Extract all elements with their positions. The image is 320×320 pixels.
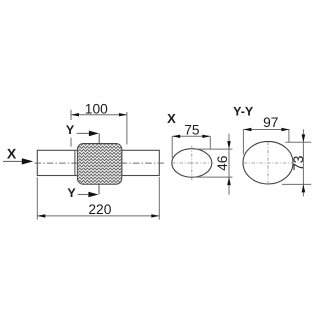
side view: centerline	[35, 162, 167, 164]
dimension 100 line	[71, 114, 127, 116]
side view: right pipe-to-flex junction line	[121, 151, 123, 176]
section line Y top	[98, 133, 100, 144]
svg-text:46: 46	[215, 155, 230, 171]
dimension 220 right extension line	[158, 177, 160, 220]
svg-text:X: X	[7, 145, 17, 161]
dimension 220 left extension line	[36, 177, 38, 219]
dimension 46 bottom extension line	[191, 176, 233, 178]
dimension 100 left extension line	[70, 110, 72, 120]
dimension 220 line	[37, 215, 159, 217]
dimension 100 right extension line	[126, 112, 128, 144]
side view: left pipe-to-flex junction line	[74, 151, 76, 176]
dimension 97 line	[243, 129, 289, 131]
section line Y bottom	[98, 184, 100, 195]
dimension 75 right extension line	[209, 136, 211, 149]
svg-text:97: 97	[263, 115, 278, 130]
arrow Y bottom	[78, 194, 90, 196]
svg-text:75: 75	[184, 122, 200, 137]
X view: vertical centerline	[191, 146, 193, 181]
Y-Y view: vertical centerline	[267, 142, 269, 184]
side view: flex braid section	[77, 144, 121, 185]
Y-Y view: horizontal centerline	[244, 162, 292, 164]
arrow Y top	[77, 132, 90, 134]
dimension 97 left extension line	[242, 130, 244, 155]
side view: pipe body	[37, 150, 159, 175]
svg-text:Y: Y	[66, 123, 75, 137]
dimension 75 left extension line	[171, 136, 173, 158]
dimension 73 line	[302, 129, 304, 196]
X view: ellipse	[172, 149, 212, 178]
svg-text:220: 220	[88, 202, 111, 217]
dimension 73 top extension line	[285, 141, 311, 143]
dimension 46 top extension line	[195, 148, 233, 150]
svg-text:Y-Y: Y-Y	[233, 105, 254, 119]
svg-text:X: X	[167, 111, 176, 126]
dimension 97 right extension line	[288, 130, 290, 143]
svg-text:Y: Y	[67, 186, 76, 200]
dimension 73 bottom extension line	[282, 183, 311, 185]
X view: horizontal centerline	[172, 162, 214, 164]
dimension 46 line	[228, 134, 230, 195]
arrow X	[3, 160, 23, 162]
Y-Y view: ellipse	[243, 141, 293, 184]
dimension 75 line	[172, 135, 210, 137]
